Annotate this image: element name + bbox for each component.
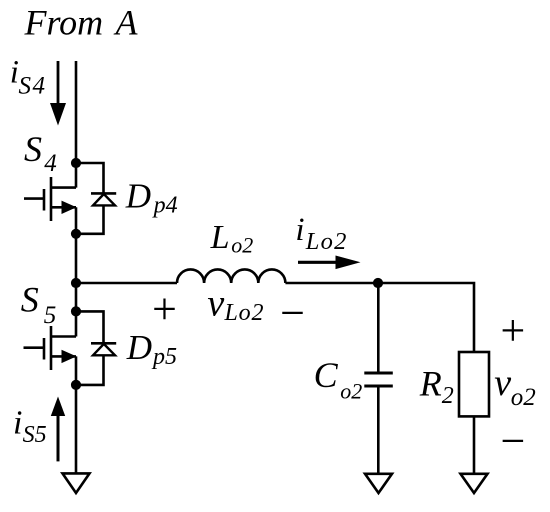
diode Dp4 loop lower wire: [76, 205, 104, 234]
current arrow iS4 (down): [57, 61, 60, 105]
diode Dp4 cathode bar: [91, 192, 116, 195]
transistor Q S4: channel bar: [50, 177, 53, 221]
node: S5 drain junction dot: [71, 306, 81, 316]
svg-text:o2: o2: [231, 233, 253, 258]
svg-text:+: +: [149, 285, 179, 334]
diode Dp5 cathode bar: [91, 342, 116, 345]
svg-text:o2: o2: [511, 384, 536, 411]
transistor Q S5: gate bar: [43, 338, 46, 360]
ground symbol under capacitor: [365, 474, 392, 493]
svg-text:p5: p5: [151, 344, 177, 370]
svg-text:L: L: [210, 219, 230, 256]
svg-text:C: C: [314, 355, 339, 395]
wire: branch node to inductor: [76, 282, 177, 285]
wire: rail between S4 source node and S5 drain node: [75, 234, 78, 337]
svg-text:S5: S5: [23, 422, 47, 448]
wire: resistor bottom lead to ground: [473, 416, 476, 473]
svg-text:Lo2: Lo2: [305, 228, 348, 255]
wire: capacitor top lead: [377, 283, 380, 373]
svg-text:+: +: [498, 306, 528, 355]
wire: S5 source stub down to node: [75, 356, 78, 385]
node: output junction dot: [373, 278, 383, 288]
transistor Q S4: gate bar: [43, 189, 46, 211]
transistor Q S5: drain lead: [51, 335, 76, 338]
transistor Q S4: gate lead: [24, 197, 44, 200]
wire: S4 source stub down to node: [75, 207, 78, 234]
svg-text:2: 2: [442, 383, 454, 409]
diode Dp5 loop lower wire: [76, 355, 104, 385]
svg-text:i: i: [295, 212, 304, 248]
ground symbol under resistor: [461, 474, 488, 493]
transistor Q S5: source lead: [51, 355, 76, 358]
svg-text:5: 5: [44, 302, 57, 329]
svg-text:R: R: [419, 364, 442, 404]
svg-text:S: S: [21, 279, 39, 319]
transistor Q S5: channel bar: [50, 326, 53, 370]
svg-text:D: D: [126, 328, 152, 367]
node: S5 source junction dot: [71, 380, 81, 390]
ground symbol at S5 source rail: [63, 473, 90, 493]
svg-text:From A: From A: [24, 3, 139, 43]
diode Dp4 triangle: [93, 194, 115, 205]
wire: input rail from A down to S4 drain node: [75, 61, 78, 188]
svg-text:4: 4: [44, 150, 57, 177]
node A: S4 drain junction dot: [71, 158, 81, 168]
svg-text:−: −: [277, 289, 307, 338]
wire: rail from S5 source node down to ground: [75, 385, 78, 474]
transistor S4 source arrowhead: [62, 201, 77, 214]
transistor Q S5: gate lead: [24, 346, 45, 349]
inductor Lo2 (4 humps): [177, 269, 285, 283]
svg-text:−: −: [498, 416, 528, 465]
wire: inductor to output node: [285, 282, 378, 285]
diode Dp4 loop upper wire: [76, 163, 104, 193]
svg-text:p4: p4: [152, 193, 178, 219]
current arrow iS5 (up): [57, 414, 60, 461]
svg-text:o2: o2: [340, 379, 362, 404]
svg-text:S4: S4: [19, 73, 47, 100]
diode Dp5 loop upper wire: [76, 311, 104, 343]
current arrow iLo2 (right): [298, 261, 340, 264]
capacitor Co2 top plate: [364, 371, 393, 374]
node: S4 source junction dot: [71, 229, 81, 239]
wire: capacitor bottom lead to ground: [377, 386, 380, 474]
node: inductor branch junction dot: [71, 278, 81, 288]
svg-text:D: D: [125, 177, 151, 216]
transistor Q S4: drain lead: [51, 186, 76, 189]
svg-text:i: i: [13, 405, 22, 442]
transistor Q S4: source lead: [51, 206, 76, 209]
wire: output node to resistor corner and down: [378, 283, 474, 352]
capacitor Co2 bottom plate: [364, 384, 393, 387]
svg-text:S: S: [24, 129, 42, 169]
svg-text:v: v: [207, 283, 224, 325]
transistor S5 source arrowhead: [62, 350, 77, 363]
diode Dp5 triangle: [93, 344, 115, 355]
resistor R2 body: [459, 352, 489, 416]
svg-text:v: v: [494, 362, 511, 404]
svg-text:Lo2: Lo2: [224, 300, 265, 326]
